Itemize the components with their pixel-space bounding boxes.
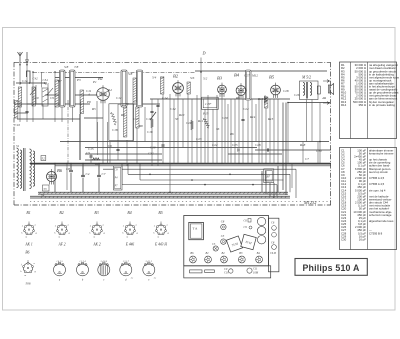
cable band line3	[30, 195, 290, 197]
antenna A1	[18, 52, 23, 63]
svg-text:C10: C10	[33, 96, 39, 100]
svg-text:E 446: E 446	[125, 243, 135, 247]
svg-text:keramische trimmer: keramische trimmer	[369, 152, 394, 156]
capacitor C22	[238, 148, 239, 151]
nested loop 3	[140, 164, 284, 180]
voltage selector box	[114, 166, 123, 190]
svg-text:C28: C28	[283, 89, 289, 93]
svg-text:C11: C11	[253, 268, 258, 271]
svg-text:C25: C25	[232, 143, 238, 147]
svg-text:C4: C4	[86, 172, 90, 176]
capacitor C21	[161, 145, 164, 146]
svg-text:teerd op strook: teerd op strook	[369, 170, 388, 174]
wire seg g	[17, 118, 80, 120]
svg-text:C8: C8	[66, 167, 70, 171]
svg-text:M 5/2: M 5/2	[301, 76, 311, 80]
tube base diagram B2 (AF 2)	[54, 211, 70, 246]
switch contact dots	[61, 72, 249, 74]
svg-text:C22: C22	[212, 143, 218, 147]
resistor R12	[151, 118, 154, 128]
svg-text:P7: P7	[114, 185, 119, 188]
switch arm 1	[30, 88, 36, 95]
mains transformer T1 core	[24, 148, 26, 191]
chassis valve socket B1	[205, 252, 212, 263]
resistor table box	[340, 62, 397, 139]
svg-text:P4: P4	[114, 177, 119, 180]
svg-text:T A: T A	[193, 227, 199, 231]
svg-text:B6: B6	[25, 251, 29, 255]
svg-text:2 4 1 3: 2 4 1 3	[146, 260, 153, 263]
switch lever 3	[150, 112, 156, 120]
resistor near speaker	[317, 86, 320, 94]
svg-text:C20: C20	[222, 116, 228, 120]
wire mid rail2b	[228, 153, 282, 155]
wire speaker feed	[288, 102, 330, 104]
IF can 3	[246, 70, 252, 100]
svg-text:R6: R6	[229, 132, 234, 136]
resistor table rows	[341, 63, 399, 107]
svg-text:m: m	[58, 236, 60, 239]
cable band hatching	[39, 192, 287, 198]
wire verticals	[20, 62, 320, 192]
svg-text:schermd montage: schermd montage	[369, 213, 392, 217]
svg-text:C17: C17	[146, 117, 152, 121]
capacitor C28	[267, 148, 268, 151]
svg-text:R9: R9	[235, 96, 240, 100]
wire mid rail	[85, 147, 257, 149]
antenna coil S1	[18, 87, 21, 107]
svg-text:C2: C2	[45, 82, 49, 86]
svg-text:C13: C13	[123, 102, 129, 106]
IF coil S5	[133, 78, 136, 102]
svg-text:5/4: 5/4	[152, 76, 157, 80]
svg-text:50: 50	[175, 117, 179, 121]
heavy chassis bus	[30, 163, 331, 165]
wire b6 left	[54, 164, 56, 192]
svg-text:1 3 5 7: 1 3 5 7	[123, 261, 130, 263]
svg-text:P8: P8	[86, 100, 91, 104]
chassis trimmer C5	[212, 243, 218, 251]
resistor R17	[92, 158, 100, 161]
svg-text:4Ω: 4Ω	[322, 96, 327, 100]
tube B5	[271, 83, 281, 98]
connector diagram a	[54, 260, 66, 282]
block B7 box	[264, 169, 274, 183]
svg-text:C30: C30	[316, 149, 322, 153]
svg-text:C10: C10	[15, 123, 21, 127]
chassis annex capacitor C9M	[270, 245, 277, 255]
IF can 1	[121, 70, 127, 107]
cable band line1	[38, 191, 288, 193]
capacitor C25	[241, 119, 244, 120]
tube B2	[173, 80, 184, 96]
capacitor C13	[156, 105, 159, 106]
svg-text:C9 M: C9 M	[270, 252, 277, 255]
svg-text:C7595 A 4,5: C7595 A 4,5	[369, 176, 385, 180]
wire bus companion	[55, 165, 331, 167]
svg-text:5/8: 5/8	[64, 65, 69, 69]
svg-text:AK 2: AK 2	[92, 243, 100, 247]
chassis transformer TA	[189, 222, 204, 239]
svg-text:36: 36	[216, 127, 220, 131]
wire rail169	[103, 168, 296, 170]
shield box AF unit	[109, 104, 134, 141]
svg-text:B7: B7	[267, 175, 271, 179]
resistor R13	[191, 120, 194, 130]
svg-text:B5: B5	[269, 75, 275, 80]
svg-text:C3: C3	[221, 234, 225, 238]
svg-text:R8: R8	[138, 124, 143, 128]
arrow out top	[323, 80, 330, 83]
svg-text:C6: C6	[108, 144, 112, 148]
svg-text:C20: C20	[186, 121, 192, 125]
chassis valve socket B4	[256, 252, 263, 263]
tube B4	[236, 83, 246, 98]
svg-text:R16: R16	[257, 97, 264, 101]
oscillator coil S3	[80, 90, 84, 114]
tuning gang can 2	[70, 70, 76, 107]
wire seg h	[14, 103, 90, 105]
svg-text:AK 1: AK 1	[24, 243, 32, 247]
cable band line2	[38, 193, 288, 195]
svg-text:m: m	[25, 236, 27, 239]
chassis valve socket B2	[221, 252, 228, 263]
svg-text:C24: C24	[243, 107, 249, 111]
svg-text:R18: R18	[299, 143, 306, 147]
svg-text:C32 →: C32 →	[148, 152, 158, 156]
svg-text:R15: R15	[267, 117, 274, 121]
svg-text:350 Ω: 350 Ω	[358, 103, 366, 107]
svg-text:zw: zw	[153, 277, 157, 279]
wire seg e	[84, 117, 103, 119]
connector diagram d	[120, 261, 134, 282]
capacitor table rows	[341, 148, 394, 241]
svg-text:5/8: 5/8	[128, 72, 133, 76]
capacitor C5	[86, 151, 93, 157]
svg-text:R11: R11	[197, 119, 203, 123]
svg-text:E 443 H: E 443 H	[154, 243, 167, 247]
svg-text:B4: B4	[127, 211, 131, 215]
coil S2b	[55, 80, 59, 107]
svg-text:5/2: 5/2	[203, 77, 208, 81]
chassis tray capacitor C9	[224, 268, 233, 275]
wire seg b	[45, 94, 59, 96]
IF coil S6	[161, 77, 164, 94]
chassis valve socket B3	[238, 252, 245, 263]
svg-text:C14: C14	[170, 107, 176, 111]
svg-text:R4: R4	[107, 88, 112, 92]
loop junction dots	[149, 174, 263, 186]
svg-text:C14: C14	[162, 96, 168, 100]
IF coil S7	[187, 82, 190, 94]
wire mid rail2	[85, 153, 162, 155]
svg-text:C27: C27	[244, 74, 250, 78]
wire top rail	[195, 70, 327, 72]
fuse box 53	[43, 185, 50, 191]
chassis gang capacitor circles	[257, 217, 265, 244]
chassis annex capacitor C8b	[271, 232, 276, 244]
svg-text:5/6: 5/6	[190, 76, 195, 80]
wire rail left short	[16, 82, 47, 84]
svg-text:R8: R8	[120, 113, 125, 117]
svg-text:1 PF: 1 PF	[205, 102, 211, 106]
chassis outline	[184, 216, 279, 278]
svg-text:54: 54	[41, 194, 45, 198]
svg-text:506: 506	[25, 282, 30, 286]
chassis electrolytic C3	[221, 234, 226, 244]
chassis small parts top	[244, 219, 253, 230]
svg-text:B1: B1	[26, 211, 30, 215]
schematic boundary left	[13, 62, 15, 205]
svg-text:m: m	[93, 236, 95, 239]
svg-text:C10: C10	[224, 272, 229, 275]
tube base diagram B6 (506)	[20, 251, 36, 286]
wire pin rail	[150, 98, 290, 100]
svg-text:C8: C8	[221, 220, 225, 224]
svg-text:7/8: 7/8	[74, 65, 79, 69]
svg-text:B6: B6	[57, 168, 63, 173]
svg-text:zw: zw	[130, 277, 134, 279]
svg-text:zie opm. bij 4: zie opm. bij 4	[369, 188, 386, 192]
coil S10	[136, 107, 139, 128]
terminal dotted row	[30, 201, 331, 203]
tube base diagram B5 (E 443 H)	[153, 211, 169, 246]
svg-text:m: m	[24, 274, 26, 277]
Philips 510 A label box	[295, 259, 367, 276]
connector diagram e	[143, 260, 157, 282]
svg-text:C17: C17	[133, 117, 139, 121]
mains transformer T1 secondary	[30, 149, 32, 189]
svg-text:B5: B5	[158, 211, 162, 215]
schematic boundary bottom	[14, 204, 331, 206]
svg-text:R14: R14	[341, 103, 347, 107]
svg-text:B1: B1	[98, 76, 103, 81]
svg-text:C18: C18	[147, 130, 153, 134]
svg-text:2 4 6 8: 2 4 6 8	[101, 260, 108, 263]
svg-text:1 2 3 4: 1 2 3 4	[79, 260, 86, 263]
wire rail2 left	[55, 77, 103, 79]
band switch box	[42, 88, 48, 106]
svg-text:C15: C15	[88, 147, 94, 151]
svg-text:AF 2: AF 2	[57, 243, 65, 247]
capacitor C31	[116, 149, 119, 150]
anode rail	[60, 141, 329, 143]
svg-text:B3: B3	[217, 76, 223, 81]
capacitor table box	[340, 148, 397, 250]
chassis IF transformer 70M	[241, 234, 256, 249]
chassis annex capacitor C6	[271, 222, 276, 231]
IF can 2	[137, 70, 143, 107]
svg-text:R14: R14	[249, 115, 256, 119]
coil S8	[265, 97, 268, 108]
connector diagram b	[77, 260, 89, 282]
antenna coil lower section	[15, 101, 18, 119]
svg-text:M1232: M1232	[303, 200, 317, 205]
wire seg a	[27, 103, 43, 105]
svg-text:P1: P1	[92, 80, 97, 84]
tuning shaft dash line	[67, 100, 69, 163]
connector diagram c	[98, 260, 110, 282]
svg-text:16 μF: 16 μF	[359, 237, 366, 241]
svg-text:C12: C12	[116, 96, 122, 100]
nested loop 2	[128, 164, 290, 193]
resistor R8 in shield	[111, 112, 117, 125]
svg-text:B2: B2	[59, 211, 63, 215]
svg-text:m: m	[126, 236, 128, 239]
mains transformer T1 winding b	[20, 150, 22, 188]
svg-text:C19 →: C19 →	[150, 145, 160, 149]
chassis tray resistor strip 2	[205, 270, 215, 273]
svg-text:C28: C28	[255, 143, 261, 147]
earth symbol	[19, 52, 29, 65]
svg-text:m: m	[157, 236, 159, 239]
svg-text:C42: C42	[33, 77, 39, 81]
chassis valve socket B6	[190, 252, 197, 263]
svg-text:P15: P15	[202, 112, 209, 116]
aerial selector bracket	[27, 71, 31, 83]
tube base diagram B1 (AK 1)	[21, 211, 37, 246]
svg-text:C1a: C1a	[22, 79, 28, 83]
schematic boundary right	[330, 62, 332, 205]
capacitor C8 electrolytic	[66, 164, 73, 192]
svg-text:C26: C26	[294, 93, 300, 97]
tube B6 rectifier	[47, 169, 57, 185]
wire b7 rail	[255, 149, 331, 151]
fuse box 52	[41, 156, 46, 161]
svg-text:B4: B4	[234, 73, 240, 78]
svg-text:B3: B3	[94, 211, 98, 215]
svg-text:in de primaire leiding: in de primaire leiding	[369, 103, 395, 107]
cable band line4	[30, 197, 290, 199]
switch arm 2	[47, 88, 53, 95]
chassis IF transformer 75M	[226, 236, 242, 252]
tube B1	[97, 85, 110, 103]
svg-text:52: 52	[42, 157, 46, 161]
svg-text:R17: R17	[94, 162, 101, 166]
resistor R6 zig	[264, 96, 267, 104]
svg-text:C7: C7	[102, 172, 106, 176]
tuning gang can 1	[60, 70, 66, 107]
loudspeaker	[328, 84, 333, 95]
wire seg d	[75, 94, 97, 96]
mains transformer T1 winding	[17, 148, 19, 188]
tube base diagram B4 (E 446)	[122, 211, 138, 246]
svg-text:M12: M12	[251, 74, 258, 78]
wire seg c	[14, 112, 28, 114]
nested loop 4	[122, 164, 277, 197]
svg-text:C7595 B 8: C7595 B 8	[369, 231, 383, 235]
tuning cord dash line	[33, 72, 195, 74]
capacitor C7 electrolytic	[97, 164, 106, 192]
coil S2	[32, 87, 35, 106]
svg-text:C30: C30	[341, 237, 347, 241]
svg-text:B2: B2	[173, 74, 179, 79]
wire pin rail2	[118, 103, 160, 105]
svg-text:afgeschermde kous: afgeschermde kous	[369, 219, 394, 223]
svg-text:R7: R7	[57, 79, 62, 83]
nested loop 1 turn	[295, 169, 297, 198]
schematic boundary top	[14, 61, 331, 63]
chassis tray resistor strip 1	[190, 270, 202, 273]
svg-text:10M: 10M	[253, 272, 259, 275]
capacitor C12	[150, 111, 153, 112]
output transformer T2	[300, 81, 319, 100]
svg-text:51: 51	[16, 144, 20, 148]
svg-text:C9: C9	[50, 96, 54, 100]
cable turnup wires	[262, 103, 286, 199]
svg-text:C18: C18	[112, 128, 118, 132]
capacitor C2	[25, 111, 28, 112]
node D stub	[200, 58, 202, 63]
capacitor C4 electrolytic	[81, 164, 90, 192]
tube base diagram B3 (AK 2)	[89, 211, 105, 246]
svg-text:C23: C23	[196, 137, 202, 141]
shield coil S9	[124, 107, 127, 137]
svg-text:D: D	[202, 51, 206, 56]
svg-text:7/5: 7/5	[160, 76, 165, 80]
pickup box 1PF	[202, 97, 219, 109]
svg-text:C7595 A 4,5: C7595 A 4,5	[369, 182, 385, 186]
svg-text:P3: P3	[76, 78, 81, 82]
resistor R6	[203, 118, 209, 128]
tube B3	[218, 83, 227, 97]
svg-text:53: 53	[44, 187, 48, 191]
chassis electrolytic C8	[221, 220, 226, 230]
svg-text:1 4 2 5: 1 4 2 5	[56, 260, 63, 263]
arrow out bottom	[323, 102, 330, 105]
svg-text:R10: R10	[178, 113, 185, 117]
svg-text:C5: C5	[86, 151, 90, 155]
svg-text:C7: C7	[305, 157, 309, 161]
svg-text:Philips 510 A: Philips 510 A	[302, 263, 359, 273]
chassis tray capacitor C11	[247, 268, 259, 275]
mains transformer T1 secondary b	[33, 151, 35, 186]
svg-text:R5: R5	[91, 107, 96, 111]
wire mid rail3	[85, 159, 162, 161]
